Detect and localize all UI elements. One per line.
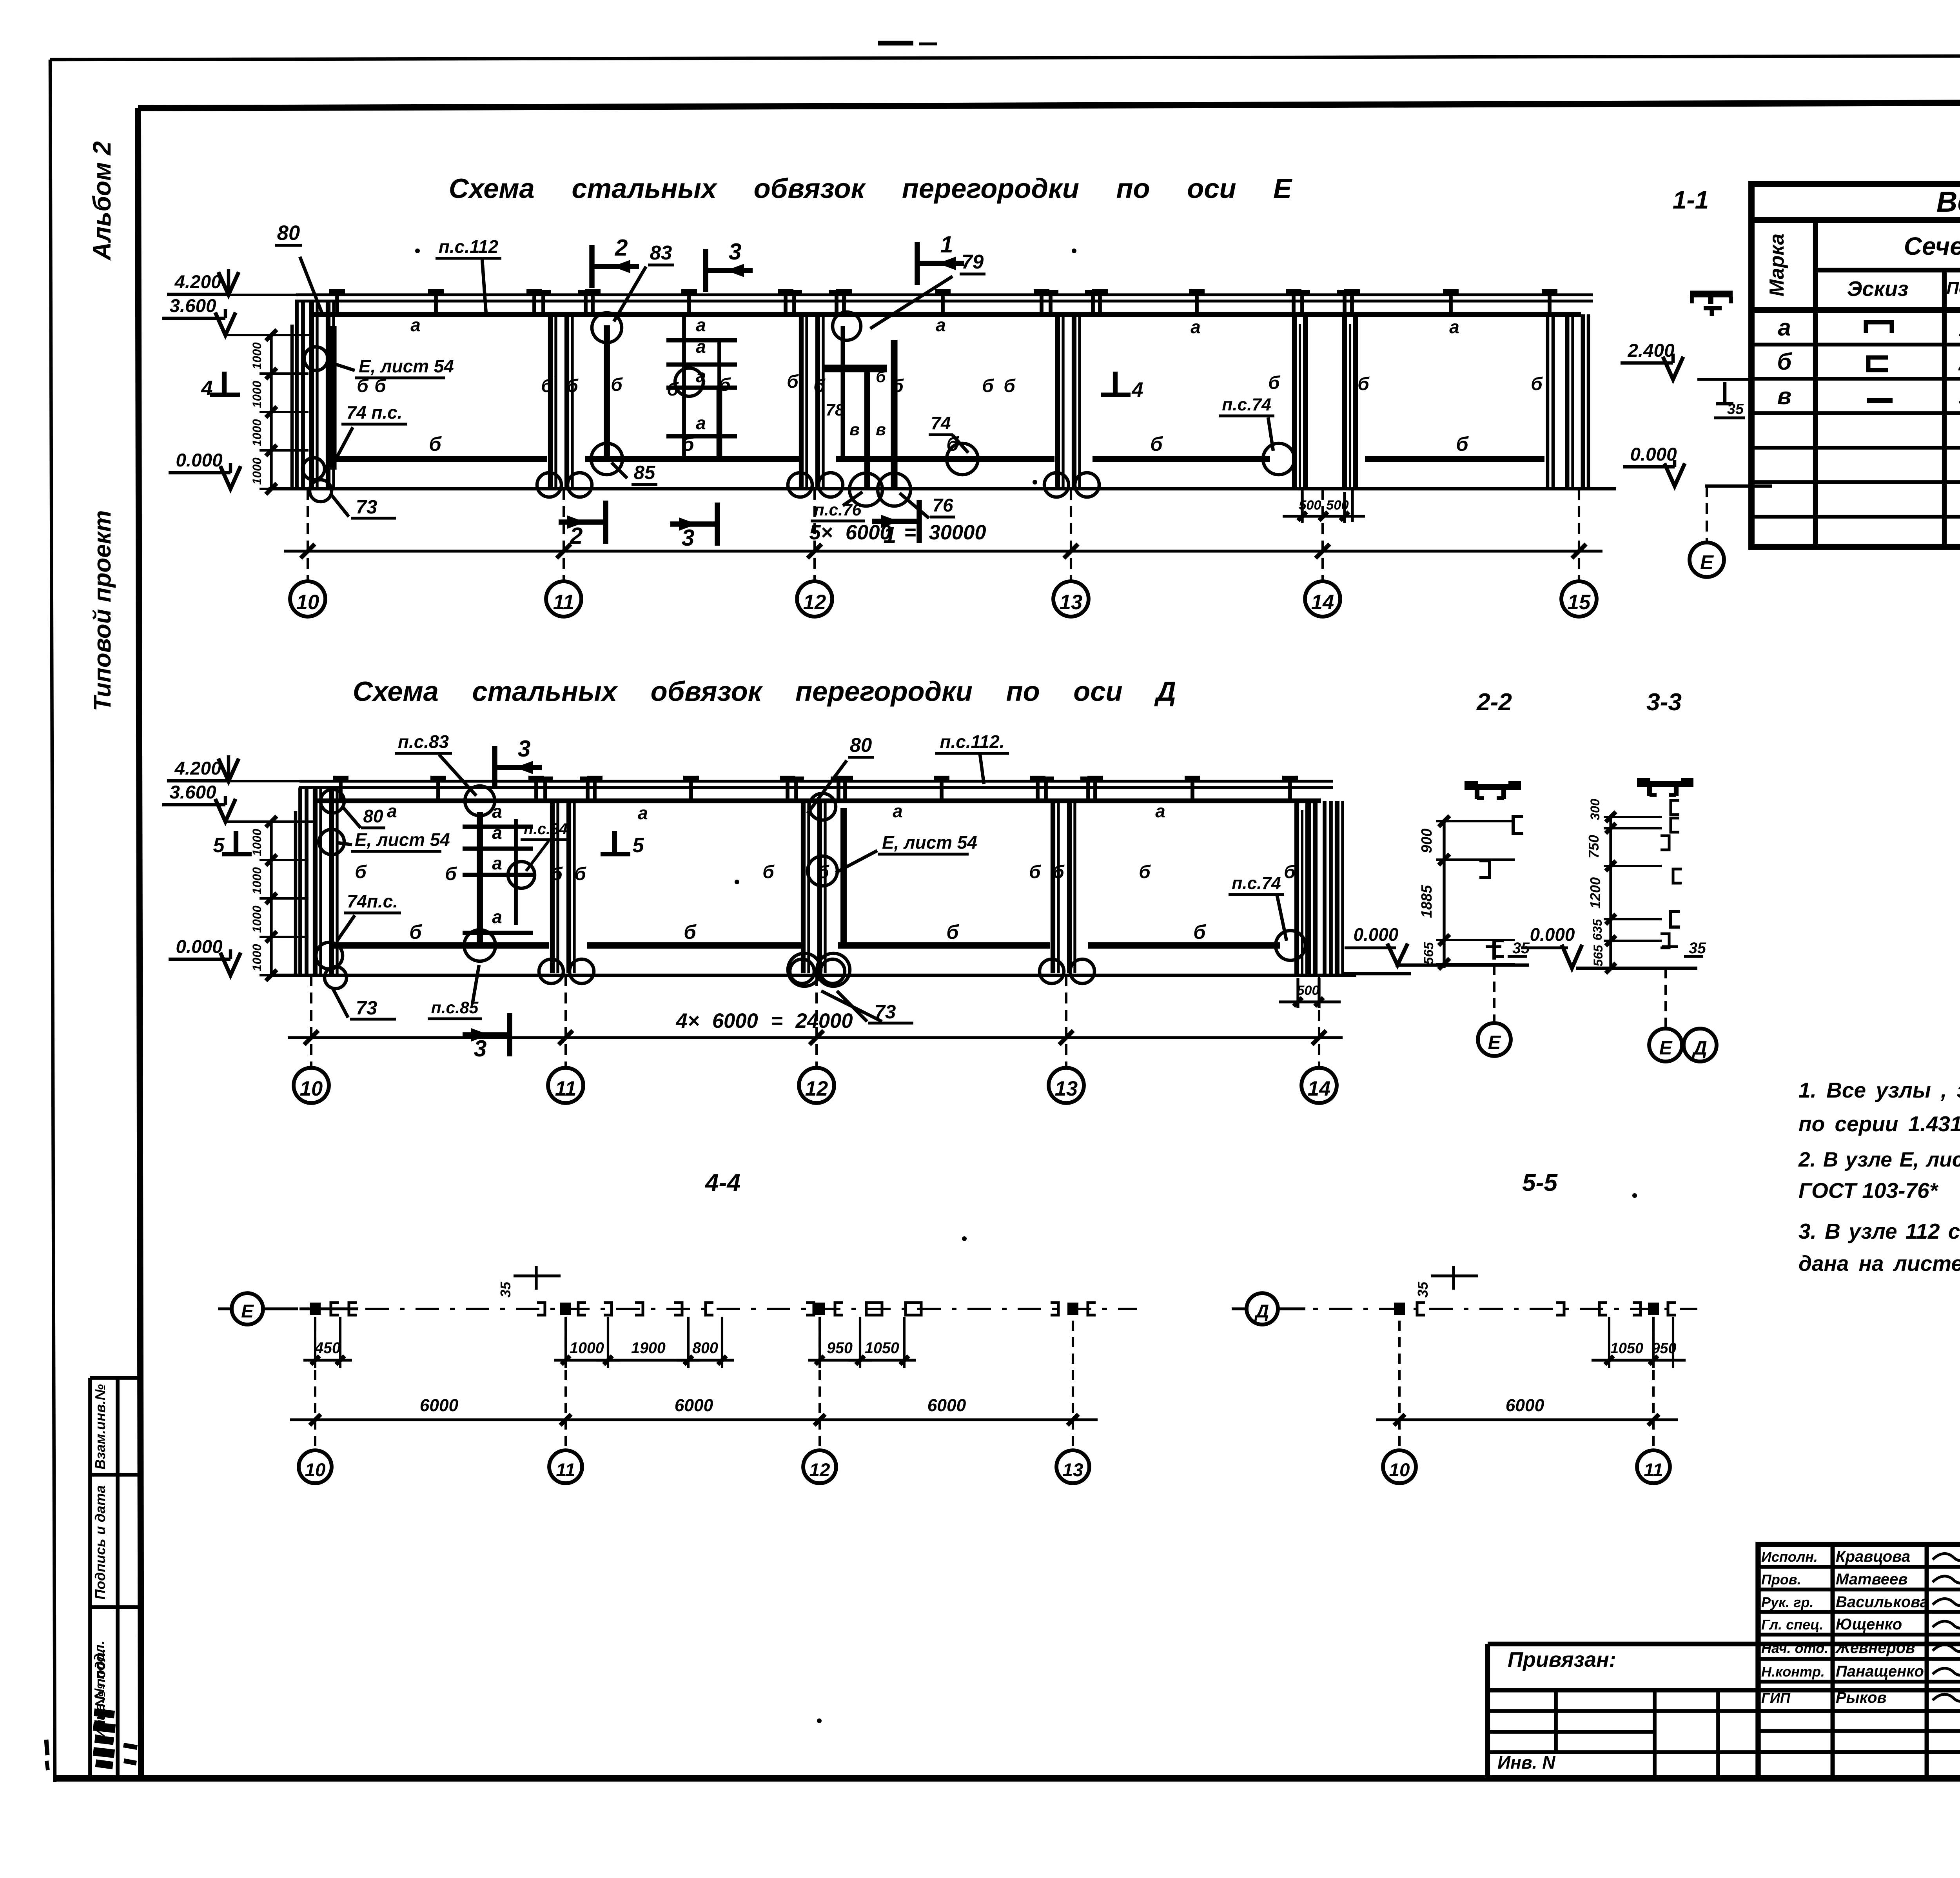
svg-text:500: 500	[1299, 498, 1321, 513]
svg-text:б: б	[682, 433, 695, 455]
svg-text:Д: Д	[1254, 1301, 1269, 1322]
svg-text:2-2: 2-2	[1476, 689, 1512, 716]
svg-text:1000: 1000	[250, 867, 264, 895]
svg-text:750: 750	[1586, 835, 1602, 858]
svg-text:б: б	[1053, 862, 1065, 882]
svg-text:Е: Е	[1488, 1032, 1502, 1053]
svg-text:500: 500	[1297, 983, 1319, 998]
svg-text:2: 2	[615, 235, 628, 261]
svg-text:п.с.83: п.с.83	[398, 731, 449, 752]
svg-text:6000: 6000	[675, 1396, 713, 1415]
svg-text:13: 13	[1055, 1077, 1078, 1100]
svg-text:Сечение: Сечение	[1904, 232, 1960, 260]
svg-text:в: в	[1777, 383, 1791, 409]
svg-text:б: б	[574, 864, 586, 884]
svg-text:б: б	[762, 862, 775, 882]
svg-text:б: б	[817, 862, 829, 882]
svg-text:Василькова: Василькова	[1836, 1593, 1929, 1611]
svg-text:3: 3	[518, 736, 531, 762]
svg-text:Е: Е	[1659, 1037, 1673, 1059]
svg-text:565: 565	[1421, 942, 1436, 964]
svg-text:б: б	[667, 379, 679, 400]
svg-text:б: б	[946, 921, 959, 943]
svg-text:ГОСТ 103-76*: ГОСТ 103-76*	[1798, 1178, 1939, 1203]
svg-text:а: а	[492, 907, 502, 927]
svg-text:Типовой проект: Типовой проект	[89, 510, 116, 711]
svg-text:4.200: 4.200	[174, 758, 221, 779]
svg-text:п.с.76: п.с.76	[814, 501, 862, 519]
svg-text:б: б	[1004, 376, 1016, 396]
svg-text:б: б	[551, 864, 563, 884]
svg-text:1000: 1000	[250, 419, 264, 446]
svg-text:Е: Е	[1700, 551, 1714, 573]
svg-text:б: б	[787, 371, 799, 392]
svg-text:а: а	[696, 413, 706, 433]
svg-text:а: а	[1155, 801, 1165, 821]
svg-text:35: 35	[1689, 940, 1706, 957]
svg-text:1200: 1200	[1587, 877, 1603, 909]
svg-text:1: 1	[884, 522, 897, 548]
svg-text:п.с.112: п.с.112	[439, 236, 499, 257]
svg-text:б: б	[1029, 862, 1041, 882]
svg-text:1. Все узлы , замаркированные: 1. Все узлы , замаркированные на данном …	[1798, 1078, 1960, 1102]
svg-text:2: 2	[570, 523, 583, 549]
svg-text:дана на листе КЖ-28.: дана на листе КЖ-28.	[1798, 1251, 1960, 1276]
svg-text:73: 73	[356, 997, 377, 1019]
svg-text:б: б	[541, 376, 553, 396]
svg-text:а: а	[696, 315, 706, 335]
svg-text:а: а	[387, 801, 397, 821]
svg-text:74: 74	[931, 413, 951, 433]
svg-text:Подпись и дата: Подпись и дата	[92, 1485, 108, 1600]
svg-text:11: 11	[555, 1077, 577, 1100]
svg-text:Марка: Марка	[1766, 234, 1788, 297]
svg-text:4× 6000 = 24000: 4× 6000 = 24000	[675, 1009, 853, 1032]
svg-text:б: б	[1456, 433, 1469, 455]
svg-text:Е, лист 54: Е, лист 54	[355, 829, 450, 850]
svg-text:Д: Д	[1691, 1037, 1707, 1059]
svg-text:12: 12	[805, 1077, 828, 1100]
svg-text:4-4: 4-4	[704, 1169, 740, 1196]
svg-text:78: 78	[826, 401, 844, 419]
svg-text:2.400: 2.400	[1627, 340, 1674, 361]
svg-text:б: б	[684, 921, 697, 943]
svg-text:Поз.: Поз.	[1946, 279, 1960, 298]
svg-text:85: 85	[634, 462, 655, 483]
svg-text:Н.контр.: Н.контр.	[1761, 1664, 1825, 1680]
svg-text:0.000: 0.000	[1354, 924, 1399, 945]
svg-text:10: 10	[305, 1460, 326, 1481]
svg-text:12: 12	[803, 591, 826, 614]
svg-text:13: 13	[1063, 1460, 1083, 1481]
svg-text:6000: 6000	[420, 1396, 459, 1415]
svg-text:10: 10	[300, 1077, 323, 1100]
svg-text:3: 3	[729, 239, 742, 265]
svg-text:б: б	[445, 864, 457, 884]
svg-text:а: а	[1778, 314, 1791, 341]
svg-text:300: 300	[1588, 799, 1602, 820]
svg-text:Ведомость элементов: Ведомость элементов	[1936, 185, 1960, 218]
svg-text:Ющенко: Ющенко	[1836, 1616, 1902, 1633]
svg-text:Взам.инв.№: Взам.инв.№	[92, 1384, 108, 1470]
svg-text:б: б	[1268, 372, 1280, 393]
svg-text:11: 11	[556, 1460, 575, 1481]
svg-text:1050: 1050	[1610, 1340, 1643, 1356]
svg-text:2. В узле Е, лист 54 принят: 2. В узле Е, лист 54 принята стальная пр…	[1798, 1148, 1960, 1171]
svg-text:Инв. N: Инв. N	[1497, 1752, 1555, 1773]
svg-text:Привязан:: Привязан:	[1508, 1648, 1616, 1671]
svg-text:3.600: 3.600	[169, 782, 216, 803]
svg-text:б: б	[1284, 862, 1296, 882]
svg-text:п.с.112.: п.с.112.	[940, 731, 1005, 752]
svg-text:3-3: 3-3	[1646, 689, 1682, 716]
svg-text:950: 950	[1652, 1340, 1677, 1356]
svg-text:а: а	[936, 315, 946, 335]
svg-text:б: б	[1777, 348, 1792, 375]
svg-text:п.с.74: п.с.74	[1222, 395, 1271, 414]
svg-text:б: б	[813, 376, 826, 396]
svg-text:а: а	[1449, 317, 1459, 337]
svg-text:а: а	[638, 803, 648, 823]
svg-text:950: 950	[827, 1339, 853, 1357]
svg-text:б: б	[1193, 921, 1206, 943]
svg-text:76: 76	[933, 495, 953, 516]
svg-text:3. В узле 112 соединительно: 3. В узле 112 соединительное изделие МС2…	[1798, 1219, 1960, 1243]
svg-text:а: а	[492, 801, 502, 822]
svg-text:14: 14	[1308, 1077, 1330, 1100]
svg-text:Эскиз: Эскиз	[1847, 277, 1909, 301]
svg-text:10: 10	[1389, 1460, 1410, 1481]
svg-text:а: а	[1191, 317, 1201, 337]
svg-text:Альбом 2: Альбом 2	[88, 141, 116, 261]
svg-text:79: 79	[962, 250, 984, 273]
svg-text:6000: 6000	[927, 1396, 966, 1415]
svg-text:2: 2	[1958, 350, 1960, 375]
svg-text:1000: 1000	[250, 829, 264, 856]
svg-text:800: 800	[692, 1339, 718, 1357]
svg-text:Схема стальных обвязок: Схема стальных обвязок перегородки по ос…	[449, 173, 1292, 204]
svg-text:635: 635	[1590, 919, 1604, 940]
svg-text:565: 565	[1591, 945, 1605, 966]
svg-text:3: 3	[474, 1036, 487, 1061]
svg-text:4.200: 4.200	[174, 272, 221, 292]
svg-text:0.000: 0.000	[176, 450, 222, 471]
svg-text:74 п.с.: 74 п.с.	[347, 402, 403, 423]
svg-text:б: б	[876, 368, 886, 386]
svg-text:Е: Е	[241, 1301, 254, 1322]
svg-text:1900: 1900	[631, 1339, 666, 1357]
svg-text:Матвеев: Матвеев	[1836, 1571, 1907, 1588]
svg-text:Рук. гр.: Рук. гр.	[1761, 1594, 1814, 1610]
svg-text:1000: 1000	[570, 1339, 604, 1357]
svg-text:Гл. спец.: Гл. спец.	[1761, 1617, 1823, 1633]
svg-text:80: 80	[850, 734, 872, 756]
svg-text:35: 35	[1727, 401, 1744, 417]
svg-text:Е, лист 54: Е, лист 54	[882, 832, 977, 853]
svg-text:11: 11	[1644, 1460, 1663, 1481]
svg-text:б: б	[409, 921, 422, 943]
svg-text:13: 13	[1060, 591, 1082, 614]
svg-text:б: б	[1357, 374, 1370, 394]
svg-text:1000: 1000	[250, 944, 264, 971]
svg-text:а: а	[410, 315, 421, 335]
svg-text:1000: 1000	[250, 342, 264, 370]
svg-text:5: 5	[632, 834, 644, 857]
svg-text:б: б	[355, 862, 367, 882]
svg-text:74п.с.: 74п.с.	[347, 891, 398, 911]
svg-text:35: 35	[1415, 1281, 1431, 1297]
svg-text:в: в	[849, 420, 860, 439]
svg-text:450: 450	[314, 1339, 341, 1357]
svg-text:б: б	[982, 376, 994, 396]
svg-text:в: в	[876, 420, 886, 439]
svg-text:п.с.84: п.с.84	[524, 820, 568, 838]
svg-text:п.с.74: п.с.74	[1232, 874, 1281, 893]
svg-text:б: б	[892, 376, 904, 396]
svg-text:5× 6000 = 30000: 5× 6000 = 30000	[809, 521, 986, 544]
svg-text:0.000: 0.000	[1530, 924, 1575, 945]
svg-text:б: б	[566, 376, 579, 396]
svg-text:по серии 1.431-13, вып. 1: по серии 1.431-13, вып. 1	[1798, 1112, 1960, 1136]
svg-text:Пров.: Пров.	[1761, 1571, 1801, 1588]
svg-text:1000: 1000	[250, 457, 264, 485]
svg-text:1885: 1885	[1418, 885, 1435, 918]
svg-text:1: 1	[1958, 316, 1960, 341]
svg-text:900: 900	[1418, 829, 1435, 853]
svg-text:1000: 1000	[250, 381, 264, 408]
svg-text:а: а	[893, 801, 903, 821]
svg-text:80: 80	[277, 221, 300, 245]
svg-text:Кравцова: Кравцова	[1836, 1548, 1910, 1565]
svg-text:5-5: 5-5	[1522, 1169, 1558, 1196]
svg-text:1000: 1000	[250, 905, 264, 933]
svg-text:б: б	[611, 374, 623, 395]
svg-text:1050: 1050	[865, 1339, 899, 1357]
svg-text:73: 73	[356, 496, 377, 518]
svg-text:1-1: 1-1	[1673, 186, 1709, 214]
svg-text:б: б	[1150, 433, 1163, 455]
svg-text:12: 12	[809, 1460, 830, 1481]
svg-text:3: 3	[1958, 385, 1960, 410]
svg-text:Панащенко: Панащенко	[1836, 1663, 1924, 1680]
svg-text:35: 35	[497, 1281, 514, 1297]
svg-text:Исполн.: Исполн.	[1761, 1549, 1818, 1565]
svg-text:83: 83	[650, 241, 672, 264]
svg-text:б: б	[429, 433, 442, 455]
svg-text:11: 11	[553, 591, 575, 614]
svg-text:Е, лист 54: Е, лист 54	[359, 356, 454, 376]
svg-text:500: 500	[1326, 498, 1348, 513]
svg-text:Инв.№ подл.: Инв.№ подл.	[91, 1640, 107, 1730]
svg-text:6000: 6000	[1506, 1396, 1544, 1415]
svg-text:б: б	[1531, 374, 1543, 394]
svg-text:0.000: 0.000	[176, 936, 222, 957]
svg-text:0.000: 0.000	[1630, 444, 1677, 465]
svg-text:а: а	[696, 336, 706, 357]
svg-text:3: 3	[682, 525, 695, 551]
svg-text:а: а	[492, 853, 502, 873]
svg-text:3.600: 3.600	[169, 296, 216, 316]
svg-text:б: б	[1139, 862, 1151, 882]
svg-text:а: а	[492, 822, 502, 843]
svg-text:80: 80	[363, 806, 383, 826]
svg-text:15: 15	[1568, 591, 1591, 614]
svg-text:1: 1	[940, 232, 953, 258]
svg-text:14: 14	[1311, 591, 1334, 614]
svg-text:10: 10	[296, 591, 319, 614]
svg-text:б: б	[719, 374, 731, 395]
svg-text:Схема стальных обвязок: Схема стальных обвязок перегородки по ос…	[353, 676, 1176, 707]
svg-text:4: 4	[1131, 378, 1143, 401]
